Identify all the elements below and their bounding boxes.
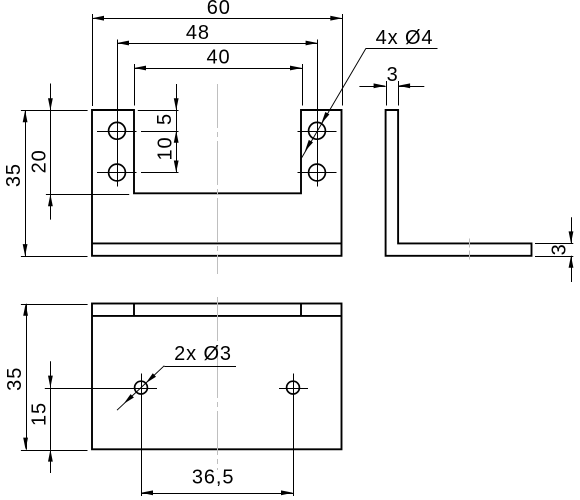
svg-text:35: 35 <box>3 163 25 187</box>
dim 15 bottom shaft <box>50 450 52 473</box>
dim 15 top shaft <box>50 361 52 387</box>
leader 2xØ3 arrow at hole edge <box>146 373 156 383</box>
dim 5 arrow (down at top edge) <box>174 98 179 110</box>
svg-text:60: 60 <box>207 0 231 19</box>
svg-text:48: 48 <box>186 22 210 44</box>
hole A4 horizontal crosshair <box>298 172 337 174</box>
dim 35 bottom arrow top <box>23 304 28 316</box>
side view outline (L profile) <box>386 110 532 256</box>
dim 40 arrow right <box>290 66 302 71</box>
dim 48 arrow right <box>306 41 318 46</box>
side view hole-axis centerline <box>469 239 471 262</box>
dim 5 shaft above <box>176 84 178 110</box>
dim 40 line <box>134 68 302 70</box>
svg-text:2x Ø3: 2x Ø3 <box>174 343 232 365</box>
dim 20 line <box>50 110 52 194</box>
dim 5/10 extension at part top <box>138 110 179 112</box>
dim 36,5 arrow left <box>141 490 153 495</box>
hole B2 vertical crosshair / 36,5 extension <box>293 374 295 497</box>
dim 40 extension line right <box>302 64 304 106</box>
dim 3 right arrow top (outside) <box>569 231 574 243</box>
hole A2 horizontal crosshair <box>97 172 137 174</box>
hole B1 horizontal crosshair / 15 extension <box>45 388 157 390</box>
bottom view notch edge right <box>300 304 302 316</box>
dim 20 arrow top (outside) <box>48 98 53 110</box>
dim 3 right upper shaft <box>571 217 573 243</box>
svg-text:40: 40 <box>206 47 230 69</box>
dim 60 line <box>92 18 342 20</box>
svg-text:5: 5 <box>154 113 176 125</box>
svg-text:36,5: 36,5 <box>192 466 235 488</box>
front view vertical centerline <box>217 84 219 274</box>
svg-text:15: 15 <box>29 402 51 426</box>
dim 35 bottom extension bottom <box>21 450 88 452</box>
dim 35 bottom arrow bottom <box>23 438 28 450</box>
dim 36,5 line <box>141 493 293 495</box>
hole A2 (bottom-left, Ø4) <box>109 164 126 181</box>
dim 15 line <box>50 388 52 450</box>
dim 3 top right shaft <box>398 86 424 88</box>
dim 3 right extension top <box>535 243 573 245</box>
dim 48 line <box>117 43 318 45</box>
front view outline (60x35 plate with 40x20 top notch) <box>92 110 342 256</box>
hole A4 (bottom-right, Ø4) <box>309 164 326 181</box>
dim 5 line <box>176 110 178 131</box>
hole A1 (top-left, Ø4) <box>109 122 126 139</box>
hole B1 (left, Ø3) <box>135 381 148 394</box>
dim 35 bottom line <box>26 304 28 450</box>
dim 3 top extension left <box>386 81 388 106</box>
hole B2 (right, Ø3) <box>287 381 300 394</box>
leader 4xØ4 arrow at hole edge <box>321 112 329 124</box>
dim 10 arrow up (tip at hole row 1) <box>174 131 179 143</box>
dim 5/10 extension at hole row 1 <box>141 131 179 133</box>
dim 3 top arrow right (outside) <box>398 83 410 88</box>
hole A1 horizontal crosshair <box>97 131 137 133</box>
svg-text:20: 20 <box>29 149 51 173</box>
hole B1 vertical crosshair / 36,5 extension <box>141 374 143 497</box>
dim 15 arrow top (outside) <box>48 376 53 388</box>
dim 48 arrow left <box>117 41 129 46</box>
dim 35 front line <box>25 110 27 256</box>
bottom view vertical centerline <box>217 297 219 470</box>
left hole column centerline / 48 extension <box>117 40 119 187</box>
bottom view flange inner edge <box>92 315 342 317</box>
dim 35 front extension bottom <box>21 256 88 258</box>
dim 3 right extension bottom <box>535 256 573 258</box>
hole A3 (top-right, Ø4) <box>309 122 326 139</box>
svg-text:3: 3 <box>549 243 571 255</box>
leader 4xØ4 outer arrow <box>305 140 313 152</box>
svg-text:3: 3 <box>387 64 399 86</box>
dim 20 extension line (notch bottom) <box>46 194 129 196</box>
hole A3 horizontal crosshair <box>298 131 337 133</box>
dim 10 line <box>176 131 178 173</box>
dim 20 bottom shaft <box>50 194 52 219</box>
leader 2xØ3 diagonal <box>117 366 164 411</box>
dim 60 arrow right <box>330 16 342 21</box>
dim 20 arrow bottom (outside) <box>48 194 53 206</box>
svg-text:4x Ø4: 4x Ø4 <box>376 27 434 49</box>
dim 40 extension line left <box>134 64 136 106</box>
dim 20 top shaft <box>50 84 52 111</box>
bottom view notch edge left <box>133 304 135 316</box>
dim 60 arrow left <box>92 16 104 21</box>
dim 35 front arrow bottom <box>23 244 28 256</box>
hole B2 horizontal crosshair <box>279 388 308 390</box>
dim 3 top left shaft <box>359 86 385 88</box>
dim 15 arrow bottom (outside) <box>48 450 53 462</box>
dim 60 extension line right <box>342 14 344 106</box>
svg-text:35: 35 <box>4 367 26 391</box>
dim 3 right arrow bottom (outside) <box>569 256 574 268</box>
dim 35 front extension top <box>21 110 88 112</box>
leader 2xØ3 outer arrow <box>124 394 134 404</box>
leader 4xØ4 underline <box>366 48 438 50</box>
right hole column centerline / 48 extension <box>317 40 319 187</box>
dim 3 right lower shaft <box>571 256 573 282</box>
bottom view outline (60x35 top face) <box>92 304 342 450</box>
dim 3 top arrow left (outside) <box>374 83 386 88</box>
dim 5/10 extension at hole row 2 <box>141 172 179 174</box>
dim 35 front arrow top <box>23 110 28 122</box>
dim 60 extension line left <box>92 14 94 106</box>
dim 40 arrow left <box>134 66 146 71</box>
leader 2xØ3 underline <box>164 366 236 368</box>
dim 35 bottom extension top <box>21 304 88 306</box>
dim 3 top extension right <box>398 81 400 106</box>
front view bend line <box>92 242 342 244</box>
dim 36,5 arrow right <box>281 490 293 495</box>
dim 10 arrow down (tip at hole row 2) <box>174 161 179 173</box>
svg-text:10: 10 <box>155 136 177 160</box>
leader 4xØ4 diagonal <box>301 48 367 159</box>
